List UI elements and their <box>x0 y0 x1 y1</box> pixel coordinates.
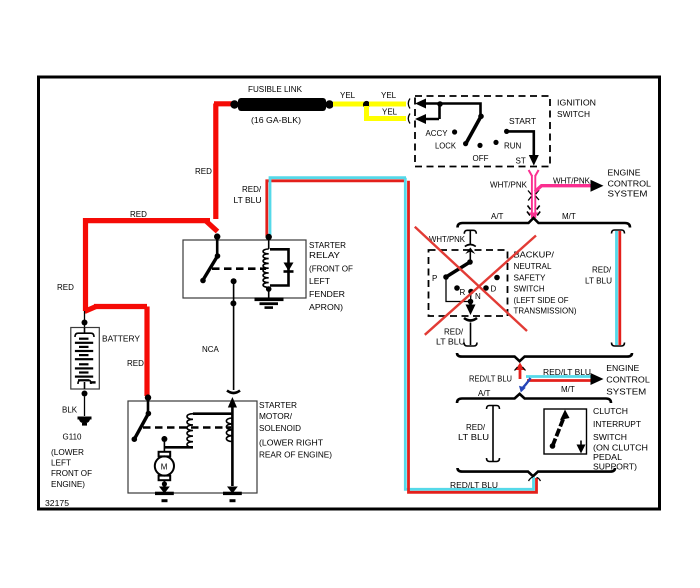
svg-text:LEFT: LEFT <box>309 277 330 286</box>
battery positive terminal <box>82 320 88 326</box>
node starter lever bottom <box>132 436 138 442</box>
wire pull-in winding top link <box>193 412 232 415</box>
clutch interrupt switch lever with up arrow <box>550 410 570 449</box>
svg-text:BLK: BLK <box>62 406 78 415</box>
label IGNITION SWITCH <box>557 99 596 120</box>
svg-text:REAR OF ENGINE): REAR OF ENGINE) <box>259 451 332 460</box>
wire RED/LT BLU clutch branch (black) <box>487 406 500 462</box>
wire RED vertical from fusible link down to starter relay <box>213 104 218 220</box>
node R terminal <box>454 285 460 291</box>
node ACCY contact <box>452 129 457 134</box>
svg-text:START: START <box>509 117 536 126</box>
battery BAT1 <box>71 328 100 390</box>
node safety switch pivot <box>467 259 473 265</box>
relay switch lever <box>203 256 218 280</box>
svg-text:CONTROL: CONTROL <box>608 179 652 188</box>
wire RED vertical down to starter motor <box>144 307 149 397</box>
svg-text:LOCK: LOCK <box>435 141 457 150</box>
svg-text:BATTERY: BATTERY <box>102 335 141 344</box>
svg-text:PEDAL: PEDAL <box>593 453 623 462</box>
svg-text:(ON CLUTCH: (ON CLUTCH <box>593 444 648 453</box>
label ENGINE CONTROL SYSTEM (upper) <box>608 168 652 198</box>
label RED/ LT BLU (at starter relay) <box>234 185 262 205</box>
svg-text:WHT/PNK: WHT/PNK <box>490 181 528 190</box>
svg-text:(FRONT OF: (FRONT OF <box>309 265 353 274</box>
node P terminal <box>443 274 449 280</box>
svg-text:(LOWER: (LOWER <box>51 448 84 457</box>
wire BLK battery negative stub <box>84 397 86 417</box>
svg-text:LT BLU: LT BLU <box>585 277 612 286</box>
wire RED horizontal battery to relay branch <box>86 218 211 223</box>
label STARTER RELAY (FRONT OF LEFT FENDER APRON) <box>309 241 353 312</box>
node D terminal <box>483 285 489 291</box>
node OFF contact <box>477 143 482 148</box>
svg-text:WHT/PNK: WHT/PNK <box>429 235 466 244</box>
backup/neutral safety switch box (dashed) <box>429 250 508 316</box>
solenoid hold-in winding on NCA wire <box>226 418 232 442</box>
inline connector below safety switch box <box>464 318 477 321</box>
safety switch lever to P <box>446 262 470 277</box>
svg-text:(LEFT SIDE OF: (LEFT SIDE OF <box>514 296 569 305</box>
label RED/ LT BLU (below safety switch) <box>436 328 465 347</box>
svg-text:FUSIBLE LINK: FUSIBLE LINK <box>248 85 303 94</box>
wire output with down arrow leaving box <box>466 302 476 316</box>
connector hooks at brace notch (bottom riser) <box>529 477 541 481</box>
svg-text:CONTROL: CONTROL <box>606 376 650 385</box>
node relay battery input terminal <box>214 233 220 239</box>
node starter lever top <box>146 411 152 417</box>
svg-text:IGNITION: IGNITION <box>557 99 596 108</box>
svg-text:NCA: NCA <box>202 345 220 354</box>
svg-text:RED: RED <box>130 210 147 219</box>
inline connector NCA to starter <box>227 391 240 394</box>
svg-text:SYSTEM: SYSTEM <box>608 190 648 199</box>
relay actuating dashed link <box>212 267 266 270</box>
label RED/ LT BLU (tall M/T branch) <box>585 266 612 286</box>
node yellow junction <box>363 101 370 108</box>
svg-text:M/T: M/T <box>562 212 576 221</box>
svg-text:A/T: A/T <box>478 389 491 398</box>
svg-text:FENDER: FENDER <box>309 290 345 299</box>
border frame <box>39 77 660 509</box>
ground at starter motor <box>155 487 174 503</box>
node relay lever top <box>215 253 221 259</box>
ground at solenoid winding <box>223 487 242 503</box>
wire RED diagonal into relay terminal <box>206 221 218 232</box>
inline connector on A/T branch <box>465 245 476 263</box>
svg-text:RUN: RUN <box>504 142 522 151</box>
node RUN contact <box>493 140 498 145</box>
wire joining both input arrows <box>438 104 441 120</box>
svg-text:ST: ST <box>516 156 526 165</box>
wire NCA into solenoid with up arrow <box>228 397 237 486</box>
motor M1 starter motor <box>155 452 174 487</box>
node relay coil bottom junction <box>266 286 272 292</box>
brace A/T-M/T split (overbrace) <box>458 218 631 228</box>
wire RED/LT BLU M/T tall branch <box>612 230 625 346</box>
label (LOWER LEFT FRONT OF ENGINE) <box>51 448 92 489</box>
svg-text:SWITCH: SWITCH <box>593 433 627 442</box>
svg-text:(16 GA-BLK): (16 GA-BLK) <box>251 116 301 125</box>
wire YEL from fusible link to junction <box>333 102 364 107</box>
svg-text:YEL: YEL <box>381 91 397 100</box>
svg-text:ENGINE: ENGINE <box>608 168 641 177</box>
starter motor/solenoid box <box>128 401 257 493</box>
wire NCA from relay output <box>233 281 235 390</box>
svg-text:ENGINE: ENGINE <box>606 364 639 373</box>
node relay lever bottom <box>200 278 206 284</box>
svg-text:A/T: A/T <box>491 212 504 221</box>
wire YEL lower branch to ignition switch <box>367 106 407 119</box>
wire YEL upper to ignition switch <box>369 102 406 107</box>
svg-text:RED/LT BLU: RED/LT BLU <box>543 368 591 377</box>
svg-text:SOLENOID: SOLENOID <box>259 424 301 433</box>
starter solenoid dashed link <box>143 426 231 429</box>
svg-text:WHT/PNK: WHT/PNK <box>553 177 591 186</box>
wire battery positive stub <box>84 311 86 327</box>
svg-text:D: D <box>491 285 497 294</box>
label STARTER MOTOR/ SOLENOID (LOWER RIGHT REAR OF ENGINE) <box>259 401 332 460</box>
relay diode branch <box>270 249 294 285</box>
svg-text:G110: G110 <box>63 433 83 442</box>
svg-text:OFF: OFF <box>473 154 489 163</box>
wire WHT/PNK A/T branch with T-connector top <box>464 230 476 244</box>
wire START to ST output with down arrow <box>507 131 539 165</box>
node relay output terminal <box>231 278 237 284</box>
wire pull-in winding bottom link <box>164 446 193 449</box>
battery negative terminal <box>82 391 88 397</box>
wire RED jog to battery feed <box>85 307 97 312</box>
svg-text:RED/: RED/ <box>444 328 464 337</box>
wire RED stub to fusible link <box>214 101 232 106</box>
svg-text:LEFT: LEFT <box>51 459 71 468</box>
label ENGINE CONTROL SYSTEM (lower) <box>606 364 650 397</box>
wire RED/LT BLU below safety switch with T-connector bottom <box>464 323 477 347</box>
ignition switch lever (to LOCK) <box>466 116 481 143</box>
svg-text:RED/LT BLU: RED/LT BLU <box>469 375 512 384</box>
svg-text:YEL: YEL <box>340 91 356 100</box>
svg-text:N: N <box>475 292 481 301</box>
svg-text:(LOWER RIGHT: (LOWER RIGHT <box>259 439 323 448</box>
relay switch contact wire <box>216 237 219 255</box>
svg-text:LT BLU: LT BLU <box>234 196 262 205</box>
wire from junction to switch pivot <box>440 104 481 116</box>
brace clutch section bottom (underbrace) <box>458 468 616 476</box>
node START contact <box>504 129 509 134</box>
svg-text:FRONT OF: FRONT OF <box>51 469 92 478</box>
svg-text:P: P <box>432 274 437 283</box>
svg-text:SWITCH: SWITCH <box>557 110 590 119</box>
node ignition feed junction <box>437 101 443 107</box>
red X crossout line 2 <box>425 236 536 335</box>
svg-text:NEUTRAL: NEUTRAL <box>514 262 553 271</box>
wire RED left vertical down to battery <box>83 218 88 311</box>
brace joining A/T and M/T (underbrace) <box>457 353 632 361</box>
wire WHT/PNK vertical below ignition switch <box>527 170 540 219</box>
wire RED horizontal over battery to starter feed <box>94 304 147 309</box>
relay coil <box>263 237 269 298</box>
node motor feed junction <box>161 436 167 442</box>
brace clutch section top (overbrace) <box>457 394 611 403</box>
wire blue bent arrow into lower brace <box>519 378 531 393</box>
ignition switch box (dashed) <box>415 96 550 167</box>
starter switch lever <box>134 414 148 440</box>
starter relay box <box>183 240 306 298</box>
wire P to output junction <box>446 277 469 302</box>
svg-text:LT BLU: LT BLU <box>458 433 489 442</box>
svg-text:RED/: RED/ <box>242 185 262 194</box>
label BACKUP/ NEUTRAL SAFETY SWITCH (LEFT SIDE OF TRANSMISSION) <box>514 251 577 316</box>
clutch switch actuator down arrow <box>577 441 586 454</box>
starter switch contact wire <box>147 398 150 413</box>
svg-text:R: R <box>460 288 466 297</box>
svg-text:SWITCH: SWITCH <box>514 285 545 294</box>
svg-text:RED/: RED/ <box>592 266 612 275</box>
svg-text:INTERRUPT: INTERRUPT <box>593 420 641 429</box>
svg-text:RED: RED <box>195 167 212 176</box>
label RED/ LT BLU (clutch branch) <box>458 423 489 442</box>
svg-text:RED: RED <box>127 359 144 368</box>
ground G110 <box>78 417 92 426</box>
clutch interrupt switch box <box>544 409 587 454</box>
svg-text:SYSTEM: SYSTEM <box>606 388 646 397</box>
node starter battery input terminal <box>145 394 151 400</box>
node N terminal <box>468 289 474 295</box>
red X crossout line 1 <box>415 227 527 331</box>
node relay coil input terminal <box>266 234 272 240</box>
ground at relay coil <box>255 298 284 309</box>
svg-text:M: M <box>161 463 168 472</box>
svg-text:APRON): APRON) <box>309 303 343 312</box>
svg-text:MOTOR/: MOTOR/ <box>259 412 293 421</box>
node L terminal <box>494 275 500 281</box>
svg-text:ACCY: ACCY <box>426 129 449 138</box>
wire motor feed <box>163 436 165 452</box>
svg-text:TRANSMISSION): TRANSMISSION) <box>514 307 577 316</box>
label CLUTCH INTERRUPT SWITCH (ON CLUTCH PEDAL SUPPORT) <box>593 407 648 472</box>
svg-text:CLUTCH: CLUTCH <box>593 407 628 416</box>
svg-text:SAFETY: SAFETY <box>514 274 547 283</box>
wire RED/LT BLU from starter relay: up corner, right side vertical, bottom run <box>267 178 537 493</box>
wire RED/LT BLU red up-arrow at junction <box>515 363 526 380</box>
wire N to output junction <box>470 292 473 302</box>
fusible link component <box>230 98 333 111</box>
svg-text:RED: RED <box>57 283 74 292</box>
wire WHT/PNK branch to engine control system <box>535 180 604 192</box>
svg-text:ENGINE): ENGINE) <box>51 480 85 489</box>
node switch pivot <box>478 114 484 120</box>
connector break arcs at ignition box edge <box>408 99 410 124</box>
svg-text:BACKUP/: BACKUP/ <box>514 251 555 260</box>
svg-text:M/T: M/T <box>561 385 575 394</box>
svg-text:LT BLU: LT BLU <box>436 338 465 347</box>
svg-text:STARTER: STARTER <box>259 401 297 410</box>
connector ticks on WHT/PNK wire <box>528 190 539 201</box>
svg-text:32175: 32175 <box>45 499 70 508</box>
node output junction <box>468 299 474 305</box>
solenoid pull-in winding <box>187 414 193 448</box>
wire RED/LT BLU horizontal to engine control system <box>526 373 604 385</box>
svg-text:RELAY: RELAY <box>309 251 341 260</box>
ignition switch input arrow lower (pin B2) <box>415 114 439 124</box>
svg-text:STARTER: STARTER <box>309 241 346 250</box>
svg-text:YEL: YEL <box>382 108 398 117</box>
svg-text:RED/: RED/ <box>466 423 486 432</box>
svg-text:RED/LT BLU: RED/LT BLU <box>450 481 498 490</box>
node on NCA wire below relay <box>230 300 236 306</box>
ignition switch input arrow upper (pin B1) <box>415 99 440 109</box>
